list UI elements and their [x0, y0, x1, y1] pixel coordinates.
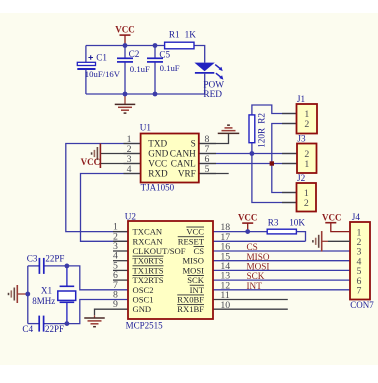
svg-text:VCC: VCC — [115, 25, 135, 35]
svg-text:10: 10 — [220, 300, 230, 311]
svg-text:TX0RTS: TX0RTS — [133, 256, 164, 266]
svg-text:C2: C2 — [129, 49, 140, 59]
svg-text:120R R2: 120R R2 — [256, 113, 266, 148]
svg-text:R3: R3 — [268, 218, 279, 228]
svg-text:X1: X1 — [41, 286, 53, 296]
svg-text:RX1BF: RX1BF — [177, 304, 204, 314]
svg-text:10K: 10K — [289, 218, 305, 228]
svg-text:7: 7 — [357, 286, 362, 297]
svg-text:RXD: RXD — [148, 169, 168, 179]
svg-text:CANL: CANL — [171, 159, 196, 169]
svg-text:J4: J4 — [352, 212, 361, 222]
svg-text:TX2RTS: TX2RTS — [133, 275, 164, 285]
svg-text:VCC: VCC — [322, 213, 342, 223]
svg-text:R1: R1 — [169, 30, 180, 40]
svg-text:5: 5 — [205, 164, 210, 175]
svg-text:8MHz: 8MHz — [32, 296, 55, 306]
svg-text:RESET: RESET — [178, 236, 205, 246]
svg-text:C5: C5 — [159, 50, 170, 60]
svg-text:0.1uF: 0.1uF — [160, 63, 180, 73]
svg-text:TXD: TXD — [148, 139, 167, 149]
svg-text:TJA1050: TJA1050 — [141, 182, 175, 192]
svg-text:4: 4 — [127, 164, 132, 175]
svg-text:CON7: CON7 — [350, 300, 374, 310]
svg-text:MOSI: MOSI — [183, 265, 205, 275]
svg-text:RED: RED — [203, 90, 222, 100]
svg-text:GND: GND — [148, 149, 168, 159]
svg-text:J1: J1 — [297, 94, 306, 104]
svg-text:VCC: VCC — [148, 159, 167, 169]
svg-text:CANH: CANH — [170, 149, 196, 159]
svg-text:C1: C1 — [96, 53, 107, 63]
svg-text:U1: U1 — [140, 123, 152, 133]
svg-text:INT: INT — [247, 281, 263, 291]
svg-text:CLKOUT/SOF: CLKOUT/SOF — [133, 246, 186, 256]
svg-text:10uF/16V: 10uF/16V — [85, 69, 121, 79]
svg-text:OSC2: OSC2 — [133, 285, 154, 295]
svg-text:C4: C4 — [22, 324, 33, 334]
svg-text:VRF: VRF — [178, 169, 196, 179]
svg-text:RXCAN: RXCAN — [133, 236, 164, 246]
svg-text:TXCAN: TXCAN — [133, 227, 163, 237]
svg-text:2: 2 — [304, 119, 309, 130]
svg-text:TX1RTS: TX1RTS — [133, 265, 164, 275]
svg-text:OSC1: OSC1 — [133, 295, 154, 305]
svg-text:C3: C3 — [27, 254, 38, 264]
svg-text:U2: U2 — [125, 212, 137, 222]
svg-text:SCK: SCK — [247, 271, 265, 281]
svg-text:INT: INT — [190, 285, 205, 295]
svg-text:MCP2515: MCP2515 — [126, 321, 164, 331]
svg-text:22PF: 22PF — [45, 324, 64, 334]
svg-text:S: S — [191, 139, 196, 149]
svg-text:SCK: SCK — [187, 275, 205, 285]
svg-text:RX0BF: RX0BF — [177, 295, 204, 305]
svg-text:22PF: 22PF — [45, 254, 64, 264]
svg-text:VCC: VCC — [238, 213, 258, 223]
svg-text:CS: CS — [247, 242, 258, 252]
svg-text:CS: CS — [193, 246, 204, 256]
svg-text:1: 1 — [304, 159, 309, 170]
svg-text:0.1uF: 0.1uF — [130, 64, 150, 74]
svg-text:MISO: MISO — [183, 256, 205, 266]
svg-text:GND: GND — [133, 304, 152, 314]
svg-text:9: 9 — [113, 299, 118, 310]
svg-text:MOSI: MOSI — [247, 262, 270, 272]
svg-text:J2: J2 — [297, 173, 306, 183]
svg-text:MISO: MISO — [247, 252, 270, 262]
svg-text:J3: J3 — [297, 134, 306, 144]
svg-text:1K: 1K — [185, 30, 197, 40]
svg-text:VCC: VCC — [81, 157, 101, 167]
svg-text:VCC: VCC — [186, 227, 204, 237]
svg-text:2: 2 — [304, 198, 309, 209]
